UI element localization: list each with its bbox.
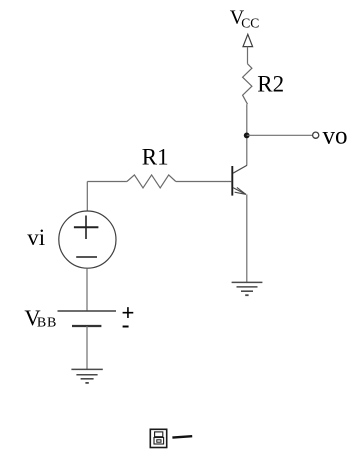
label vi <box>27 225 45 250</box>
source vi circle <box>59 211 116 268</box>
battery VBB top plate <box>58 310 117 312</box>
transistor Q1 base bar <box>231 166 233 196</box>
caption character yi (one) <box>172 436 192 437</box>
label VBB <box>24 305 57 330</box>
svg-text:vi: vi <box>27 225 45 250</box>
svg-text:BB: BB <box>37 315 57 330</box>
power symbol VCC arrow <box>243 34 253 46</box>
svg-text:R1: R1 <box>142 145 169 170</box>
wire battery to ground <box>86 326 88 369</box>
svg-text:vo: vo <box>323 123 348 150</box>
battery VBB bottom plate <box>72 325 101 327</box>
resistor R1 <box>127 175 176 188</box>
label R2 <box>257 71 284 96</box>
transistor Q1 collector lead <box>233 165 247 173</box>
label VCC <box>230 6 260 30</box>
svg-text:CC: CC <box>241 15 259 30</box>
label battery minus <box>122 312 130 337</box>
wire base left segment <box>87 181 127 183</box>
wire R2 to collector <box>246 104 248 165</box>
transistor Q1 emitter lead <box>233 188 246 195</box>
ground emitter <box>232 282 263 295</box>
node collector junction <box>244 133 250 139</box>
minus sign in source <box>76 256 97 258</box>
caption character tu (figure) <box>150 429 166 447</box>
wire node to vo terminal <box>247 134 313 136</box>
label R1 <box>142 145 169 170</box>
wire base right segment <box>176 181 232 183</box>
transistor Q1 emitter arrow <box>235 187 246 194</box>
terminal vo <box>313 132 319 138</box>
plus sign in source <box>74 216 99 240</box>
wire emitter to ground <box>246 194 248 282</box>
label vo <box>323 123 348 150</box>
svg-text:R2: R2 <box>257 71 284 96</box>
resistor R2 <box>243 64 252 104</box>
label battery plus <box>121 300 134 325</box>
wire to source vi <box>86 182 88 212</box>
svg-text:-: - <box>122 312 130 337</box>
ground battery <box>71 369 102 383</box>
wire VCC arrow to R2 <box>247 47 249 64</box>
wire source to battery <box>86 268 88 311</box>
